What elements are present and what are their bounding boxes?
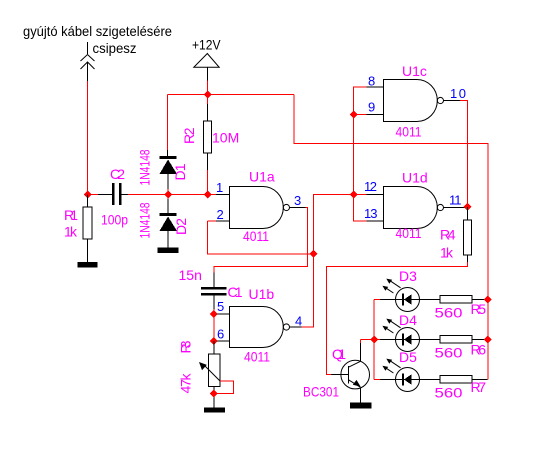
wire: pin12 to pin13 [354,195,367,222]
capacitor C2 [98,183,128,205]
wire: R4 bottom to Q1 base [327,262,468,374]
svg-text:9: 9 [368,100,375,115]
node: junction LED bus [370,336,378,344]
wire: C2 to D junction to pin1 [128,194,216,196]
node: junction R3 wiper [210,390,218,398]
wire: pins 8/9 vertical [354,87,367,195]
resistor R1 [83,195,92,263]
node: junction pin 11 [464,203,472,211]
ground under Q1 [350,403,372,409]
svg-text:BC301: BC301 [303,384,339,400]
pin 12 lead [354,194,384,196]
svg-text:D5: D5 [399,349,417,365]
LED D3 [380,279,420,312]
wire: node A row [88,194,99,196]
svg-text:C2: C2 [110,166,125,182]
svg-text:R7: R7 [471,379,487,395]
svg-text:6: 6 [217,327,224,342]
svg-text:13: 13 [364,206,378,221]
ground under R3 [204,408,225,413]
svg-text:Q1: Q1 [332,346,346,362]
svg-text:R1: R1 [64,207,78,223]
diode D2 [160,195,178,248]
wire: bus to D5 [374,379,380,381]
probe clip symbol [81,42,95,81]
node: junction pin6 [210,337,218,345]
node: +12V junction [204,91,212,99]
wire: rail down to D1 [167,95,169,151]
transistor Q1 [331,340,370,403]
svg-text:U1a: U1a [249,169,275,185]
resistor R5 [420,296,488,304]
svg-text:47k: 47k [178,373,194,394]
ground under D2 [158,248,179,254]
op: NAND gate U1a [230,187,290,229]
resistor R2 [204,95,212,195]
node: junction R6 [484,336,492,344]
svg-text:D3: D3 [399,268,417,284]
svg-text:560: 560 [435,305,463,321]
svg-text:1N4148: 1N4148 [137,202,153,238]
svg-text:D4: D4 [399,312,417,328]
pin 4 lead [290,326,302,328]
svg-text:15n: 15n [179,267,202,283]
pin 6 lead [214,340,230,342]
ground under R1 [78,262,98,268]
pin 10 lead [444,100,461,102]
svg-text:4: 4 [295,314,302,329]
svg-text:4011: 4011 [396,225,422,241]
svg-text:R2: R2 [181,127,197,144]
pin 2 lead [208,220,230,222]
svg-text:R5: R5 [471,301,487,317]
resistor R6 [420,336,488,344]
svg-text:4011: 4011 [244,349,270,365]
pin 5 lead [214,313,230,315]
wire: collector to LED bus [361,339,375,341]
svg-text:gyújtó kábel szigetelésére: gyújtó kábel szigetelésére [23,23,172,39]
svg-text:C1: C1 [228,284,243,300]
node: junction pin5 [210,310,218,318]
op: NAND gate U1b [230,307,290,348]
LED D5 [380,359,420,392]
svg-text:2: 2 [217,207,224,222]
svg-text:+12V: +12V [192,37,221,53]
wire: U1b out up to pin12 row [302,195,354,328]
wire: pin5 to pin6 [213,314,215,341]
svg-text:csipesz: csipesz [93,40,137,56]
svg-text:1N4148: 1N4148 [137,149,153,185]
pin 8 lead [367,86,384,88]
node: junction pin 12 [350,191,358,199]
svg-text:10M: 10M [212,130,239,146]
wire: U1a out down to C1 [214,208,308,273]
node: junction pin 9 [350,111,358,119]
svg-text:3: 3 [294,193,301,208]
svg-text:1k: 1k [64,224,78,240]
node: junction at R1/C2 [84,191,92,199]
svg-text:8: 8 [368,74,375,89]
svg-text:10: 10 [450,86,466,101]
pin 9 lead [354,114,384,116]
node: junction at R2/pin1 [204,191,212,199]
wire: LED bus vertical [373,300,375,380]
wire: +12V stem [207,81,209,96]
pin 13 lead [367,220,384,222]
wire: bus to D4 [374,339,380,341]
potentiometer R3 [199,341,234,408]
pin 1 lead [216,194,230,196]
svg-text:R3: R3 [178,340,194,353]
resistor R4 [464,207,472,262]
pin 3 lead [290,207,306,209]
op: NAND gate U1c [384,80,444,122]
svg-text:D1: D1 [172,163,188,180]
svg-text:1: 1 [216,180,223,195]
svg-text:12: 12 [364,179,377,194]
node: junction R5 [484,296,492,304]
svg-text:4011: 4011 [396,124,422,140]
node: junction at D1/D2 [164,191,172,199]
resistor R7 [420,376,488,384]
capacitor C1 [201,273,227,315]
wire: U1c out down to pin 11 [460,101,468,207]
wire: probe to node A [87,81,89,195]
LED D4 [380,319,420,352]
svg-text:U1b: U1b [249,286,275,302]
svg-text:U1c: U1c [402,63,427,79]
svg-text:5: 5 [217,299,224,314]
svg-text:560: 560 [435,345,463,361]
pin 11 lead [444,207,468,209]
svg-text:R6: R6 [471,342,487,358]
svg-text:560: 560 [435,385,463,401]
svg-text:U1d: U1d [402,170,428,186]
wire: +12V feed right [294,95,488,380]
svg-text:100p: 100p [101,212,128,228]
op: NAND gate U1d [384,187,444,229]
svg-text:1k: 1k [440,245,454,261]
node: junction feedback [310,250,318,258]
wire: +12V rail [168,94,295,96]
wire: U1a pin2 feedback loop [208,221,314,254]
svg-text:11: 11 [449,193,462,208]
svg-text:D2: D2 [173,218,189,235]
svg-text:R4: R4 [440,227,456,243]
wire: bus to D3 [374,299,380,301]
diode D1 [160,150,178,195]
svg-text:4011: 4011 [243,228,269,244]
